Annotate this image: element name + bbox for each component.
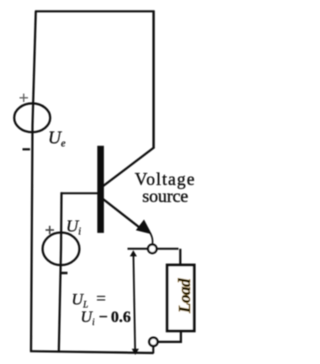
arrow hook to node [150,233,152,244]
transistor Q1 emitter arrowhead [136,220,152,235]
svg-text:source: source [142,186,188,206]
U_i plus sign [46,226,55,234]
measurement arrow U_L [133,254,135,349]
wire top horizontal [35,10,155,12]
wire output horizontal [128,248,148,250]
wire from load bottom [158,331,181,342]
wire to load top [179,249,181,266]
wire bottom rail [30,351,154,353]
wire right vertical [152,11,154,149]
U_e plus sign [20,94,29,102]
transistor Q1 base bar [97,146,104,233]
transistor Q1 emitter diagonal [103,199,144,231]
U_e minus sign [23,148,31,150]
svg-text:=: = [96,289,106,308]
node A output terminal circle [148,245,157,254]
wire U_i rail [59,192,62,351]
wire left rail [31,11,36,352]
U_i minus sign [60,272,68,274]
voltage source U_i circle [43,233,80,266]
load box [167,265,194,331]
svg-text:Load: Load [175,278,194,314]
node B bottom terminal circle [149,338,157,346]
voltage source U_e circle [14,103,50,132]
wire collector diagonal [103,147,155,186]
svg-text:Ui − 0.6: Ui − 0.6 [81,309,131,327]
stub node B to bottom rail [152,346,154,354]
wire base [61,192,98,194]
